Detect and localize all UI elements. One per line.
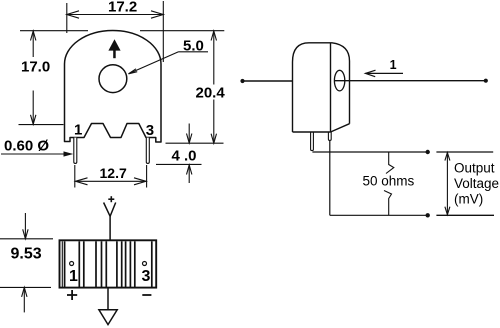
- plus mark (top lead): [108, 196, 114, 202]
- transformer T1 3D body: [293, 43, 350, 132]
- wire bottom to output: [330, 214, 428, 216]
- resistor R1 50 ohms: [384, 152, 394, 215]
- bottom lead with open triangle arrow: [99, 288, 117, 325]
- node dot output top: [426, 150, 430, 154]
- dimension 17.0 (body height): [19, 31, 64, 125]
- dimension 0.60 dia (pin) with leader arrow: [1, 153, 72, 155]
- svg-text:12.7: 12.7: [100, 165, 127, 181]
- svg-text:17.0: 17.0: [21, 59, 50, 76]
- node dot right: [484, 79, 488, 83]
- svg-text:1: 1: [74, 122, 82, 139]
- T1 pin B (secondary): [328, 132, 331, 140]
- terminal 3 marker (bottom view): [143, 262, 147, 266]
- polarity arrow (up) inside body: [108, 39, 120, 58]
- node dot left: [240, 79, 244, 83]
- current direction arrow: [366, 70, 404, 77]
- svg-text:Voltage: Voltage: [454, 176, 499, 191]
- hole through T1 (ellipse): [334, 70, 344, 91]
- dimension 4.0 (pin length): [156, 124, 202, 184]
- svg-text:4 .0: 4 .0: [172, 148, 197, 165]
- T1 pin A (secondary): [311, 132, 314, 151]
- minus mark (pin 3 polarity): [142, 294, 151, 296]
- dimension 12.7 (pin spacing): [75, 165, 147, 188]
- wire from pin A to output top: [312, 151, 427, 153]
- svg-text:50 ohms: 50 ohms: [363, 174, 415, 189]
- wire from pin B down: [329, 140, 331, 215]
- transformer body front view (dome outline with castellated base): [65, 31, 162, 142]
- svg-text:3: 3: [142, 268, 151, 285]
- dimension 5.0 (hole) with leader: [129, 52, 209, 74]
- output terminal line bottom: [436, 214, 494, 216]
- svg-text:0.60 Ø: 0.60 Ø: [4, 138, 49, 155]
- svg-text:17.2: 17.2: [108, 0, 137, 16]
- bottom view box: [60, 240, 157, 287]
- winding hatch lines (top view): [62, 241, 152, 287]
- svg-text:1: 1: [69, 268, 78, 285]
- primary wire left segment: [243, 80, 293, 82]
- output voltage double arrow: [445, 153, 450, 215]
- dimension 9.53 (depth): [0, 213, 53, 312]
- svg-text:3: 3: [146, 122, 154, 139]
- svg-text:1: 1: [390, 58, 397, 72]
- output terminal line top: [436, 151, 493, 153]
- svg-text:9.53: 9.53: [11, 246, 42, 263]
- node dot output bottom: [426, 213, 430, 217]
- svg-text:20.4: 20.4: [196, 85, 226, 102]
- svg-text:(mV): (mV): [454, 192, 483, 207]
- pin 1 (front view): [74, 138, 77, 164]
- top reference line: [20, 30, 224, 32]
- terminal 1 marker (bottom view): [70, 262, 74, 266]
- dimension 17.2 (width): [67, 1, 164, 62]
- mounting hole (5.0 dia): [99, 65, 127, 93]
- svg-text:5.0: 5.0: [183, 38, 204, 55]
- plus mark (pin 1 polarity): [67, 290, 77, 300]
- Y arrow (top lead of bottom view): [104, 203, 116, 241]
- primary wire right segment through hole: [334, 80, 485, 82]
- pin 3 (front view): [146, 138, 149, 164]
- dimension 20.4 (overall height): [166, 31, 224, 143]
- svg-text:Output: Output: [454, 161, 495, 176]
